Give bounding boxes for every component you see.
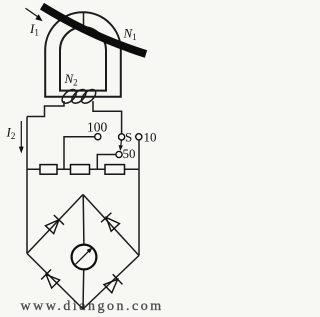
- svg-text:100: 100: [87, 120, 108, 135]
- contact 10: [136, 134, 142, 140]
- wire meter bottom: [82, 270, 85, 309]
- wire 50 to row: [97, 155, 116, 170]
- wire bridge side bottom-left: [27, 254, 83, 310]
- contact S: [119, 134, 125, 140]
- wire meter top: [82, 195, 85, 245]
- diode D1 (top-left arm): [45, 215, 64, 234]
- diode D2 (top-right arm): [101, 213, 120, 232]
- wire N2 left lead (staircase): [27, 101, 64, 117]
- wire left rail: [26, 117, 28, 254]
- conductor bar (primary): [42, 6, 146, 54]
- wire bridge side top-left: [27, 195, 83, 254]
- meter needle: [76, 248, 93, 265]
- diode D3 (bottom-left arm): [41, 270, 60, 289]
- current arrow I1: [26, 8, 43, 21]
- contact 50: [116, 151, 122, 157]
- meter M: [72, 245, 97, 270]
- winding N2: [60, 87, 99, 106]
- resistor R1: [40, 165, 57, 175]
- switch wiper arrow: [119, 140, 123, 151]
- wire N2 right lead: [93, 101, 122, 134]
- svg-text:50: 50: [123, 146, 136, 161]
- clamp CT core outer arch: [45, 12, 121, 97]
- resistor R3: [105, 165, 125, 175]
- clamp hinge split line: [83, 12, 85, 28]
- svg-text:S: S: [125, 130, 132, 145]
- resistor R2: [71, 165, 90, 175]
- svg-text:10: 10: [144, 130, 157, 145]
- wire bridge side bottom-right: [83, 256, 139, 310]
- diode D4 (bottom-right arm): [103, 274, 122, 293]
- wire right rail: [138, 140, 140, 256]
- wire resistor row: [27, 168, 139, 170]
- current arrow I2: [19, 121, 24, 154]
- contact 100: [95, 134, 101, 140]
- clamp CT core inner window: [60, 27, 106, 91]
- wire bridge side top-right: [83, 195, 139, 256]
- wire 100 to row: [64, 137, 95, 170]
